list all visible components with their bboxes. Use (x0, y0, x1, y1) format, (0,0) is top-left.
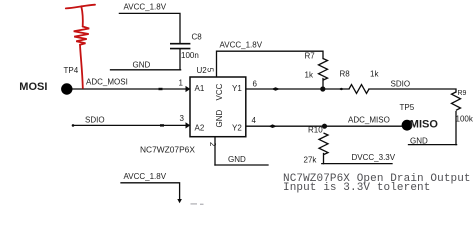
wire GND bar under MISO (409, 144, 457, 146)
svg-text:ADC_MISO: ADC_MISO (348, 116, 390, 125)
wire R10 bottom to DVCC bar (323, 154, 325, 164)
svg-text:MOSI: MOSI (19, 81, 47, 93)
svg-text:TP4: TP4 (64, 66, 79, 75)
capacitor C8 (170, 44, 190, 49)
pin arrow Y2 (269, 124, 278, 128)
wire chip GND pin 2 down (214, 137, 216, 165)
wire tick R8 lead (339, 88, 345, 91)
resistor R9 (452, 92, 461, 110)
svg-text:4: 4 (252, 116, 257, 125)
resistor R8 (349, 85, 369, 94)
wire AVCC_1.8V top bar (119, 13, 180, 43)
svg-text:SDIO: SDIO (391, 80, 411, 89)
svg-text:TP5: TP5 (400, 103, 415, 112)
wire arrow bottom AVCC (177, 199, 182, 203)
wire R7 bottom to junction (322, 79, 324, 90)
wire DVCC_3.3V bar (322, 163, 392, 165)
svg-text:Y2: Y2 (232, 124, 242, 133)
svg-text:Y1: Y1 (232, 84, 242, 93)
wire end dot SDIO left (72, 124, 75, 127)
wire GND bar (chip bottom) (215, 164, 268, 166)
svg-text:2: 2 (208, 142, 217, 147)
resistor R10 (319, 133, 328, 155)
wire GND bar (top left) (111, 69, 181, 71)
svg-text:R8: R8 (340, 70, 351, 79)
svg-text:3: 3 (180, 114, 185, 123)
pin arrow Y1 (272, 87, 281, 91)
test point TP4 (61, 83, 72, 94)
svg-text:AVCC_1.8V: AVCC_1.8V (124, 172, 167, 181)
svg-text:NC7WZ07P6X: NC7WZ07P6X (140, 145, 195, 155)
junction dot at R7 / Y1 row (320, 86, 325, 91)
wire C8 bottom to GND bar (179, 49, 181, 70)
red annotation scribble resistor (66, 5, 95, 88)
wire tick MOSI row (159, 88, 163, 90)
svg-text:100n: 100n (181, 51, 199, 60)
wire Y1 row: R8 to right edge, down to R9 (369, 89, 456, 92)
svg-text:A1: A1 (195, 84, 205, 93)
wire SDIO row (A2) (73, 124, 190, 126)
svg-text:ADC_MOSI: ADC_MOSI (86, 78, 128, 87)
svg-text:GND: GND (228, 155, 246, 164)
svg-text:SDIO: SDIO (85, 116, 105, 125)
svg-text:GND: GND (410, 137, 428, 146)
svg-text:GND: GND (215, 110, 224, 128)
svg-text:GND: GND (133, 61, 151, 70)
svg-text:5: 5 (206, 68, 215, 73)
svg-text:1: 1 (179, 79, 184, 88)
svg-text:A2: A2 (195, 124, 205, 133)
op-amp buffer U2 body (190, 77, 246, 137)
wire Y1 row: chip to R8 (246, 88, 349, 90)
svg-text:R7: R7 (305, 52, 316, 61)
svg-text:VCC: VCC (215, 83, 224, 100)
svg-text:R9: R9 (458, 90, 467, 97)
test point TP5 (402, 120, 413, 131)
svg-text:MISO: MISO (410, 119, 439, 131)
wire ADC_MOSI row (67, 88, 190, 90)
partial label C9 cut at bottom edge (191, 203, 204, 205)
junction dot at R10 / Y2 row (322, 124, 327, 129)
wire tick SDIO row (160, 124, 164, 126)
svg-text:DVCC_3.3V: DVCC_3.3V (352, 153, 396, 162)
resistor R7 (319, 59, 328, 81)
svg-text:27k: 27k (304, 156, 318, 165)
svg-text:AVCC_1.8V: AVCC_1.8V (124, 3, 167, 12)
svg-text:R10: R10 (308, 126, 323, 135)
wire AVCC_1.8V mid bar to VCC pin and R7 (217, 51, 324, 77)
svg-text:6: 6 (253, 80, 258, 89)
wire R9 bottom down to GND bar right end (455, 112, 457, 145)
svg-text:1k: 1k (305, 71, 314, 80)
svg-text:C8: C8 (192, 33, 203, 42)
pin arrow A2 (186, 122, 191, 128)
svg-text:AVCC_1.8V: AVCC_1.8V (220, 41, 263, 50)
svg-text:Input is 3.3V tolerent: Input is 3.3V tolerent (283, 182, 430, 194)
svg-text:100k: 100k (456, 115, 474, 124)
svg-text:1k: 1k (370, 70, 379, 79)
wire AVCC_1.8V bottom bar (121, 183, 180, 201)
wire Y2 row: chip to TP5 (246, 125, 403, 127)
pin arrow A1 (186, 86, 191, 92)
